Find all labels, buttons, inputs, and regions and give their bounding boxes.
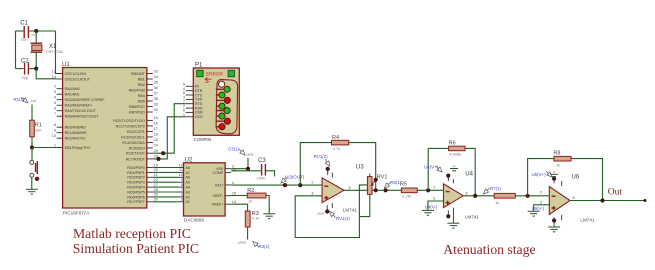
svg-text:9: 9: [181, 178, 183, 182]
svg-text:1k: 1k: [248, 199, 252, 204]
svg-text:U3: U3: [356, 164, 364, 170]
svg-text:CRYSTAL: CRYSTAL: [46, 49, 65, 54]
svg-text:U1: U1: [62, 62, 70, 68]
node VEE riser junction: [246, 167, 250, 171]
svg-text:A7: A7: [186, 171, 190, 175]
svg-text:RD5/PSP5: RD5/PSP5: [127, 190, 144, 194]
svg-text:2: 2: [54, 85, 56, 89]
wire MCLR to U1 pin 1: [32, 147, 57, 149]
svg-text:7: 7: [181, 188, 183, 192]
svg-text:36: 36: [154, 86, 158, 90]
svg-text:5: 5: [54, 101, 56, 105]
svg-text:U4: U4: [465, 171, 473, 177]
svg-text:RB7/PGD: RB7/PGD: [129, 110, 145, 114]
svg-text:7: 7: [54, 112, 56, 116]
svg-text:16: 16: [154, 122, 158, 126]
svg-text:8: 8: [54, 123, 56, 127]
svg-text:12: 12: [179, 163, 183, 167]
svg-text:C1: C1: [20, 21, 28, 27]
capacitor C3: [257, 158, 267, 181]
svg-text:100n: 100n: [257, 176, 266, 181]
resistor R8: [553, 151, 571, 168]
svg-text:R8: R8: [553, 151, 560, 157]
svg-text:RA2/AN2/VREF-/CVREF: RA2/AN2/VREF-/CVREF: [65, 98, 106, 102]
potentiometer RV1: [367, 173, 387, 194]
svg-text:A2: A2: [186, 195, 190, 199]
node IOUT label junction: [283, 183, 287, 187]
svg-text:15: 15: [154, 116, 158, 120]
svg-text:IOUT: IOUT: [215, 183, 224, 187]
label C3(1): [228, 147, 253, 156]
wire U6 pin3 to ground: [534, 205, 550, 211]
svg-text:27: 27: [154, 183, 158, 187]
ground U4 V-: [447, 223, 459, 228]
wire C3 right stub: [266, 171, 275, 177]
svg-text:RD2/PSP2: RD2/PSP2: [127, 176, 144, 180]
svg-text:9: 9: [54, 129, 56, 133]
wire U3 pin3 loop to RV1 bottom: [295, 185, 367, 238]
node R5 label junction: [384, 188, 388, 192]
svg-text:11: 11: [179, 168, 183, 172]
svg-text:Matlab reception PIC: Matlab reception PIC: [73, 226, 191, 241]
svg-text:U6(V-): U6(V-): [532, 206, 545, 211]
wire feedback riser to R4: [300, 143, 331, 186]
connector P1 COMPIM serial port: [183, 63, 239, 143]
node R8 output junction: [600, 198, 604, 202]
svg-text:6: 6: [573, 196, 575, 200]
op U2 DAC0808: [184, 157, 237, 222]
svg-text:VREF-: VREF-: [213, 194, 225, 198]
capacitor C1: [20, 21, 35, 42]
wire U4 pin3 to ground: [428, 201, 444, 210]
svg-text:R6: R6: [449, 141, 456, 147]
svg-text:U6: U6: [572, 174, 580, 180]
svg-text:RA1/AN1: RA1/AN1: [65, 93, 80, 97]
svg-text:4.7k: 4.7k: [252, 216, 260, 221]
svg-text:14: 14: [232, 200, 236, 204]
wire P1 TXD to U1 RC6: [153, 104, 186, 154]
node RV1 wiper junction: [374, 178, 378, 182]
svg-text:6: 6: [183, 109, 185, 113]
wire R1 to MCLR junction: [31, 137, 33, 148]
svg-text:C3: C3: [258, 158, 266, 164]
svg-text:OSC2/CLKOUT: OSC2/CLKOUT: [65, 77, 91, 81]
svg-text:6: 6: [466, 191, 468, 195]
svg-text:4.508k: 4.508k: [449, 152, 461, 157]
node RV1 output junction: [374, 188, 378, 192]
ground U6 V-: [548, 227, 560, 232]
node crystal top junction: [34, 29, 38, 33]
wire IOUT to U3 pin 2: [231, 184, 322, 186]
node RXD junction: [156, 157, 160, 161]
svg-text:8: 8: [183, 91, 185, 95]
label RV1(2): [314, 154, 330, 166]
svg-text:38: 38: [154, 97, 158, 101]
node U3 bottom pin: [325, 209, 329, 213]
push button reset: [30, 160, 39, 181]
svg-text:RC4/SDI/SDA: RC4/SDI/SDA: [122, 141, 145, 145]
svg-text:330: 330: [35, 127, 42, 132]
ground below button: [26, 189, 38, 194]
label U6(V-): [532, 206, 545, 211]
svg-text:34: 34: [154, 75, 158, 79]
svg-text:RC2/CCP1: RC2/CCP1: [127, 130, 145, 134]
resistor R3: [245, 211, 259, 227]
svg-text:10: 10: [179, 173, 183, 177]
svg-text:U6(V+): U6(V+): [532, 172, 547, 177]
svg-text:13: 13: [52, 69, 56, 73]
node U6 V+ pin: [552, 177, 556, 181]
svg-text:3: 3: [54, 90, 56, 94]
resistor R6: [449, 141, 465, 157]
svg-text:RI: RI: [195, 85, 199, 89]
annotation Simulation Patient PIC: [73, 241, 199, 256]
node feedback tap junction: [298, 183, 302, 187]
label R1(1): [14, 97, 37, 103]
svg-text:RC6/TX/CK: RC6/TX/CK: [126, 152, 145, 156]
svg-text:18: 18: [154, 133, 158, 137]
wire C2 left: [16, 68, 24, 70]
wire R6 feedback riser: [428, 148, 448, 190]
annotation Atenuation stage: [443, 242, 535, 257]
svg-text:9: 9: [183, 83, 185, 87]
svg-text:LM741: LM741: [343, 207, 357, 212]
node C2/crystal junction: [34, 67, 38, 71]
label R7(1): [483, 186, 501, 194]
wire COMP to C3: [231, 170, 261, 172]
wire C1 right to OSC1 rail: [29, 30, 55, 32]
svg-text:DCD: DCD: [195, 115, 203, 119]
label Out: [608, 188, 623, 198]
node U6 bottom pin: [552, 218, 556, 222]
svg-text:35: 35: [154, 80, 158, 84]
power bars above U4: [450, 166, 458, 171]
op-amp U3 LM741: [311, 164, 364, 212]
svg-text:COMP: COMP: [213, 171, 224, 175]
svg-text:MCLR/Vpp/THV: MCLR/Vpp/THV: [65, 146, 91, 150]
svg-text:RB3/PGM: RB3/PGM: [129, 88, 145, 92]
svg-text:17: 17: [154, 127, 158, 131]
wire R8 to output node: [571, 159, 602, 201]
node TXD junction: [161, 151, 165, 155]
svg-text:U2(IOUT): U2(IOUT): [285, 175, 305, 180]
svg-text:24: 24: [154, 144, 158, 148]
wire R3 down stub: [247, 227, 249, 240]
svg-text:4.7k: 4.7k: [333, 146, 341, 151]
svg-text:RD4/PSP4: RD4/PSP4: [127, 186, 144, 190]
svg-text:Out: Out: [608, 188, 623, 198]
wire button to ground: [31, 177, 33, 189]
ground R2: [263, 214, 275, 219]
resistor R1: [30, 120, 43, 137]
node U4 bottom pin: [446, 214, 450, 218]
capacitor C2: [21, 59, 29, 80]
svg-text:LM741: LM741: [465, 214, 479, 219]
wire OSC1 rail down to pin 13: [56, 31, 63, 74]
svg-text:19: 19: [154, 163, 158, 167]
svg-text:PIC16F877A: PIC16F877A: [63, 211, 90, 216]
svg-text:5: 5: [181, 198, 183, 202]
svg-text:DSR: DSR: [195, 111, 203, 115]
svg-text:2: 2: [311, 180, 313, 184]
svg-text:8: 8: [181, 183, 183, 187]
svg-text:Simulation Patient PIC: Simulation Patient PIC: [73, 241, 199, 256]
svg-text:DAC0808: DAC0808: [184, 218, 204, 223]
svg-text:RA5/AN4/SS/C2OUT: RA5/AN4/SS/C2OUT: [65, 115, 100, 119]
op U1 PIC16F877A microcontroller: [52, 62, 158, 216]
svg-text:R2: R2: [247, 188, 254, 194]
svg-text:COMPIM: COMPIM: [194, 137, 212, 142]
svg-text:RD0/PSP0: RD0/PSP0: [127, 166, 144, 170]
node MCLR junction: [30, 145, 34, 149]
svg-text:RV1(1): RV1(1): [336, 216, 350, 221]
svg-text:R4: R4: [332, 135, 339, 141]
svg-text:RD1/PSP1: RD1/PSP1: [127, 171, 144, 175]
wire U6 output to Out: [570, 200, 645, 202]
crystal X1: [31, 31, 65, 69]
svg-text:22p: 22p: [21, 37, 28, 42]
svg-text:RE0/AN5/RD: RE0/AN5/RD: [65, 126, 87, 130]
wire R5 to U4 pin 2: [417, 189, 443, 191]
node U4 output junction: [473, 194, 477, 198]
svg-text:RB0/INT: RB0/INT: [131, 72, 146, 76]
svg-text:RB6/PGC: RB6/PGC: [129, 105, 145, 109]
svg-text:RA0/AN0: RA0/AN0: [65, 87, 80, 91]
svg-text:39: 39: [154, 102, 158, 106]
svg-text:A4: A4: [186, 186, 190, 190]
svg-text:22p: 22p: [22, 75, 29, 80]
node R6 tap junction: [426, 188, 430, 192]
svg-text:20: 20: [154, 168, 158, 172]
wire VEE to C3(1) riser: [231, 158, 248, 169]
svg-text:RB1: RB1: [138, 77, 145, 81]
svg-text:Atenuation stage: Atenuation stage: [443, 242, 535, 257]
resistor R5: [400, 181, 417, 198]
svg-text:RE1/AN6/WR: RE1/AN6/WR: [65, 131, 87, 135]
svg-text:R5: R5: [400, 181, 407, 187]
wire VREF- to R2: [231, 195, 247, 197]
svg-text:A3: A3: [186, 190, 190, 194]
node Out terminal: [644, 199, 647, 202]
svg-text:25: 25: [154, 149, 158, 153]
svg-text:RC3/SCK/SCL: RC3/SCK/SCL: [121, 135, 145, 139]
svg-text:ERROR: ERROR: [206, 71, 224, 76]
svg-text:RD6/PSP6: RD6/PSP6: [127, 195, 144, 199]
svg-text:22: 22: [154, 178, 158, 182]
wire P1 RXD to U1 RC7: [153, 117, 186, 159]
svg-text:14: 14: [52, 75, 56, 79]
svg-text:37: 37: [154, 91, 158, 95]
op-amp U4 LM741: [433, 171, 479, 223]
ground U4 pin3: [422, 210, 434, 215]
wire R8 feedback riser: [528, 159, 554, 196]
svg-text:OSC1/CLKIN: OSC1/CLKIN: [65, 72, 87, 76]
svg-text:A5: A5: [186, 181, 190, 185]
svg-text:6: 6: [181, 193, 183, 197]
wire RV1 bottom terminal: [359, 194, 369, 216]
wire U4 output to R7: [463, 195, 494, 197]
label RV1(1): [318, 212, 351, 222]
svg-text:4: 4: [54, 96, 56, 100]
svg-text:3: 3: [433, 196, 435, 200]
svg-text:1: 1: [183, 113, 185, 117]
svg-text:2: 2: [540, 191, 542, 195]
svg-text:28: 28: [154, 188, 158, 192]
svg-text:6: 6: [349, 186, 351, 190]
node R8 tap junction: [526, 194, 530, 198]
svg-text:RE2/AN7/CS: RE2/AN7/CS: [65, 137, 87, 141]
svg-text:RTS: RTS: [195, 102, 203, 106]
svg-text:RV1: RV1: [377, 174, 388, 180]
wire R7 to U6 pin 2: [515, 195, 549, 197]
svg-text:U2: U2: [185, 157, 193, 163]
annotation Matlab reception PIC: [73, 226, 191, 241]
svg-text:3: 3: [540, 201, 542, 205]
ground U6 pin3: [528, 211, 540, 216]
svg-text:R3(1): R3(1): [259, 244, 271, 249]
power bars above U6: [550, 172, 558, 177]
svg-text:RB5: RB5: [138, 99, 145, 103]
wire R6 to U4 output: [465, 148, 475, 195]
op-amp U6 LM741: [540, 174, 595, 226]
label U2(IOUT): [281, 175, 305, 184]
svg-text:U4(V-): U4(V-): [425, 205, 438, 210]
svg-text:RA4/T0CKI/C1OUT: RA4/T0CKI/C1OUT: [65, 109, 97, 113]
wire U3 output: [344, 189, 401, 191]
resistor R4: [332, 135, 349, 151]
svg-text:RC7/RX/DT: RC7/RX/DT: [126, 157, 146, 161]
node U3 top pin: [326, 167, 330, 171]
svg-text:RC1/T1OSI/CCP2: RC1/T1OSI/CCP2: [116, 124, 145, 128]
svg-text:29: 29: [154, 193, 158, 197]
wire C2 right: [29, 68, 36, 70]
svg-text:23: 23: [154, 138, 158, 142]
wire VREF+ to R3: [231, 204, 248, 211]
wire C1 left to rail: [16, 30, 24, 32]
svg-text:30: 30: [154, 198, 158, 202]
svg-text:7: 7: [183, 100, 185, 104]
svg-text:VREF+: VREF+: [212, 203, 224, 207]
label U4(V+): [424, 164, 442, 172]
svg-text:RB4: RB4: [138, 94, 145, 98]
label R3(1): [238, 242, 270, 250]
wire R4 to output node: [349, 143, 376, 191]
wire label to R1: [31, 105, 33, 121]
wire R2 to ground: [266, 196, 269, 214]
wire junction down to button: [31, 148, 33, 161]
svg-text:RV1(2): RV1(2): [314, 154, 328, 159]
svg-text:RD3/PSP3: RD3/PSP3: [127, 181, 144, 185]
svg-text:RD7/PSP7: RD7/PSP7: [127, 200, 144, 204]
svg-text:A1: A1: [186, 200, 190, 204]
svg-text:1k: 1k: [495, 200, 499, 205]
resistor R2: [247, 188, 266, 204]
wire data bus U1 RD0-RD7 to U2 A8-A1: [153, 163, 184, 202]
wire crystal to pin 14: [36, 69, 56, 79]
svg-text:2: 2: [433, 185, 435, 189]
svg-text:RA3/AN3/VREF+: RA3/AN3/VREF+: [65, 104, 93, 108]
svg-text:2.2M: 2.2M: [402, 194, 411, 199]
svg-text:1: 1: [54, 143, 56, 147]
svg-text:CTS: CTS: [195, 93, 203, 97]
svg-text:4: 4: [232, 181, 234, 185]
svg-text:10: 10: [52, 134, 56, 138]
resistor R7: [494, 193, 515, 204]
label U6(V+): [532, 171, 553, 177]
svg-text:C3(1): C3(1): [228, 147, 240, 152]
svg-text:RC0/T1OSO/T1CKI: RC0/T1OSO/T1CKI: [113, 119, 145, 123]
label U4(V-): [425, 205, 438, 210]
svg-text:21: 21: [154, 173, 158, 177]
svg-text:A6: A6: [186, 176, 190, 180]
wire left rail C1-C2: [15, 31, 17, 69]
svg-text:R7(1): R7(1): [490, 186, 502, 191]
svg-text:LM741: LM741: [580, 217, 594, 222]
svg-text:3: 3: [311, 191, 313, 195]
label R5(1): [384, 180, 402, 188]
svg-text:A8: A8: [186, 166, 190, 170]
svg-text:40: 40: [154, 108, 158, 112]
node U4 V+ pin: [446, 174, 450, 178]
svg-text:P1: P1: [195, 63, 203, 69]
svg-text:6: 6: [54, 107, 56, 111]
svg-text:RC5/SDO: RC5/SDO: [129, 146, 145, 150]
svg-text:33: 33: [154, 69, 158, 73]
svg-text:1k: 1k: [556, 162, 560, 167]
svg-text:RB2: RB2: [138, 83, 145, 87]
